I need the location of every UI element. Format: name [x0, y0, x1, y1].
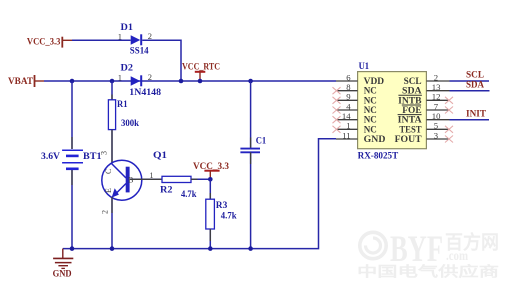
- resistor R1: [108, 100, 139, 130]
- node dot R1 branch: [110, 79, 115, 84]
- svg-text:INTA: INTA: [398, 116, 422, 126]
- svg-text:NC: NC: [364, 87, 377, 97]
- svg-text:12: 12: [432, 92, 441, 102]
- U1 left NC no-connect X marks: [333, 87, 341, 133]
- wire SCL net: [450, 80, 490, 82]
- battery BT1: [41, 150, 102, 169]
- wire node to R3: [209, 179, 211, 199]
- svg-text:13: 13: [432, 82, 441, 92]
- svg-text:R3: R3: [216, 201, 228, 211]
- node dot R3/rail: [208, 246, 213, 251]
- wire Q1 base to R2: [130, 178, 162, 180]
- U1 right pin numbers: [432, 72, 441, 140]
- overbar INTB: [398, 94, 422, 96]
- wire R2 to node: [191, 178, 210, 180]
- U1 left pin names: [364, 77, 386, 145]
- svg-text:GND: GND: [53, 269, 72, 279]
- node dot R2/R3/VCC_3.3: [208, 177, 213, 182]
- resistor R3: [206, 199, 237, 229]
- diode D1: [118, 23, 152, 57]
- svg-text:8: 8: [346, 82, 351, 92]
- diode D2: [118, 64, 162, 98]
- wire battery branch vertical: [71, 81, 73, 149]
- overbar FOE: [402, 104, 421, 106]
- svg-text:Q1: Q1: [153, 151, 167, 161]
- node dot C1 branch: [248, 79, 253, 84]
- svg-text:1: 1: [118, 72, 122, 82]
- overbar INTA: [398, 114, 422, 116]
- svg-text:GND: GND: [364, 135, 386, 145]
- svg-text:SDA: SDA: [466, 80, 484, 90]
- IC U1 body: [358, 62, 427, 162]
- svg-text:6: 6: [346, 72, 351, 82]
- svg-text:VDD: VDD: [364, 77, 385, 87]
- svg-text:2: 2: [148, 31, 152, 41]
- svg-text:3: 3: [434, 130, 438, 140]
- svg-text:R1: R1: [117, 100, 128, 110]
- svg-text:VBAT: VBAT: [8, 77, 34, 87]
- svg-text:7: 7: [434, 101, 439, 111]
- svg-text:U1: U1: [359, 62, 370, 72]
- ground rail wire: [63, 139, 336, 249]
- svg-text:NC: NC: [364, 106, 377, 116]
- U1 left pin numbers: [342, 72, 351, 140]
- svg-text:300k: 300k: [121, 119, 140, 129]
- svg-text:NC: NC: [364, 96, 377, 106]
- wire R1 top: [111, 81, 113, 100]
- svg-text:C1: C1: [256, 137, 267, 147]
- node dot battery branch: [70, 79, 75, 84]
- svg-text:R2: R2: [160, 185, 173, 195]
- wire R1 bottom to Q1 collector: [111, 130, 113, 163]
- node dot D1 branch: [179, 79, 184, 84]
- svg-text:C: C: [104, 169, 113, 174]
- svg-text:TEST: TEST: [399, 125, 422, 135]
- svg-text:INIT: INIT: [466, 109, 487, 119]
- svg-text:2: 2: [101, 210, 110, 214]
- svg-text:2: 2: [148, 72, 152, 82]
- svg-text:D1: D1: [121, 23, 134, 33]
- svg-text:NC: NC: [364, 125, 377, 135]
- U1 right pin stubs: [426, 81, 449, 139]
- watermark logo circle: [360, 232, 386, 258]
- svg-text:SCL: SCL: [404, 77, 422, 87]
- svg-text:SS14: SS14: [130, 47, 149, 57]
- svg-text:RX-8025T: RX-8025T: [358, 151, 399, 161]
- node dot emitter/rail: [110, 246, 115, 251]
- wire VCC_3.3 to D1 anode: [72, 39, 131, 41]
- capacitor C1: [240, 137, 266, 153]
- wire D1 cathode to corner, down to VCC_RTC node: [142, 40, 181, 81]
- svg-text:1: 1: [346, 121, 350, 131]
- svg-text:D2: D2: [121, 64, 134, 74]
- svg-text:NC: NC: [364, 116, 377, 126]
- wire R3 bottom to ground rail: [209, 229, 211, 249]
- power port VCC_RTC: [182, 63, 220, 82]
- node dot C1/rail: [248, 246, 253, 251]
- svg-text:1: 1: [118, 32, 122, 42]
- watermark slogan 中国电气供应商: [357, 264, 499, 281]
- wire SDA net: [450, 90, 490, 92]
- svg-text:4: 4: [346, 101, 351, 111]
- svg-text:FOUT: FOUT: [395, 135, 423, 145]
- node dot VCC_RTC tap: [198, 79, 203, 84]
- svg-text:5: 5: [434, 121, 438, 131]
- svg-text:3.6V: 3.6V: [41, 152, 60, 162]
- wire C1 top: [250, 81, 252, 148]
- svg-text:.com: .com: [446, 249, 468, 264]
- svg-text:中国电气供应商: 中国电气供应商: [357, 264, 499, 281]
- svg-text:9: 9: [346, 92, 350, 102]
- power port VBAT: [8, 75, 44, 87]
- svg-text:4.7k: 4.7k: [221, 212, 237, 222]
- ground symbol GND: [53, 249, 74, 279]
- node dot battery/rail: [70, 246, 75, 251]
- resistor R2: [160, 176, 197, 200]
- power port VCC_3.3 top-left: [27, 37, 72, 48]
- svg-text:E: E: [104, 188, 113, 193]
- svg-text:14: 14: [342, 111, 351, 121]
- svg-text:BYF: BYF: [390, 229, 443, 270]
- svg-text:11: 11: [342, 130, 350, 140]
- svg-text:10: 10: [432, 111, 441, 121]
- wire C1 bottom to ground rail: [250, 152, 252, 248]
- transistor Q1: [102, 151, 167, 200]
- svg-text:1N4148: 1N4148: [129, 88, 161, 98]
- power port VCC_3.3 at R2/R3 node: [193, 162, 229, 179]
- svg-text:4.7k: 4.7k: [181, 190, 197, 200]
- wire Q1 emitter to ground rail: [111, 197, 113, 249]
- svg-text:VCC_3.3: VCC_3.3: [27, 38, 61, 48]
- U1 right no-connect X marks: [445, 97, 453, 143]
- wire INIT net: [450, 119, 490, 121]
- U1 left pin stubs: [336, 81, 358, 139]
- svg-text:SCL: SCL: [466, 70, 484, 80]
- watermark BYF.com text: [390, 229, 499, 270]
- U1 right pin names: [395, 77, 423, 145]
- svg-text:3: 3: [100, 151, 109, 155]
- svg-text:2: 2: [434, 72, 438, 82]
- wire VBAT rail to IC pin 6: [44, 80, 336, 82]
